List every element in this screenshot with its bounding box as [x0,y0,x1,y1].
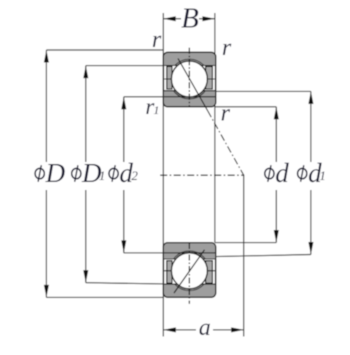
cage left rect [167,67,172,90]
dimension phiD [35,50,164,297]
ball bottom [171,253,207,289]
svg-text:B: B [181,3,199,35]
svg-text:d: d [275,158,289,188]
cage cavity white band bottom [164,259,214,284]
cage right rect [206,67,213,90]
top bearing section [163,48,216,111]
inner ring d2 line bottom [164,252,215,254]
inner ring shoulder line bottom [164,258,215,260]
cage split line [164,78,215,80]
cage split line bottom [164,270,215,272]
svg-text:r: r [222,35,232,61]
cage cavity white band [164,66,214,91]
dimension phid1 [215,91,326,256]
outer ring bore line bottom [164,283,215,285]
wire left face extension line [162,13,164,337]
ball centerline bottom [188,243,190,304]
contact angle line top [178,59,208,112]
inner ring d2 line [164,96,215,98]
dimension phiD1 [72,66,164,284]
wire a right extension line [243,175,245,336]
bottom bearing section [163,243,216,304]
cage left rect bottom [167,261,172,284]
svg-text:a: a [199,315,211,341]
inner ring shoulder line [164,90,215,92]
svg-text:r: r [221,101,231,127]
dimension phid [215,107,289,243]
raceway groove circle [170,59,210,99]
ball centerline top [188,48,190,107]
outer ring bore line [164,65,215,67]
raceway groove circle bottom [170,251,210,291]
svg-text:D: D [45,158,66,188]
ball top [171,61,207,97]
contact angle line bottom [174,250,205,293]
dimension phid2 [109,97,163,253]
outer ring top block [163,52,216,107]
svg-text:1: 1 [153,103,159,117]
wire contact angle dash-dot extension [208,111,244,175]
inner ring bottom block [163,243,216,298]
node axis centerline [160,174,244,176]
cage right rect bottom [206,261,213,284]
dimension B [163,3,215,35]
wire right face extension line [214,13,216,243]
dimension a [163,315,243,341]
svg-text:r: r [152,27,162,53]
